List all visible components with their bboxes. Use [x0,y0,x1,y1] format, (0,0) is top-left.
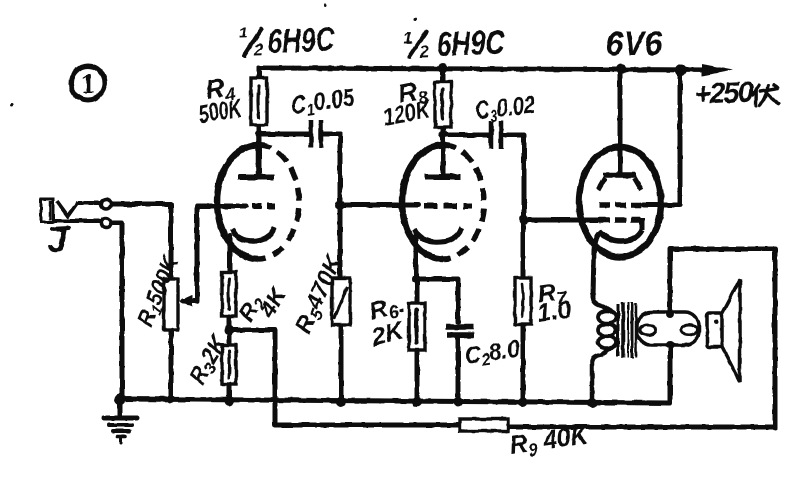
svg-text:+250: +250 [694,76,755,111]
svg-text:1: 1 [403,29,413,48]
svg-text:6Н9С: 6Н9С [436,23,506,63]
svg-text:6Н9С: 6Н9С [267,21,336,61]
svg-text:1.0: 1.0 [535,295,573,328]
svg-text:1: 1 [81,69,95,100]
svg-text:2: 2 [419,42,431,61]
svg-text:6V6: 6V6 [606,25,663,63]
svg-text:1: 1 [239,25,248,42]
svg-text:2: 2 [253,40,265,59]
